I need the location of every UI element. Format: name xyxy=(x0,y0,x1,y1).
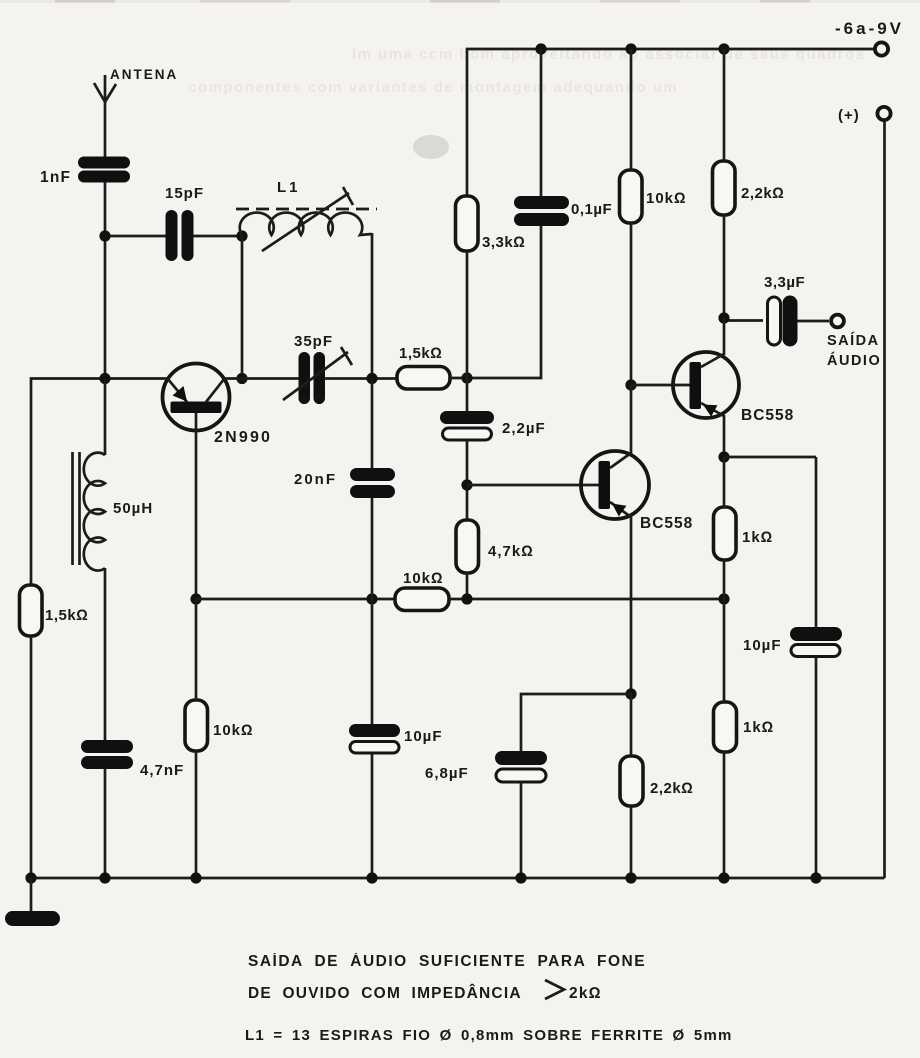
svg-text:35pF: 35pF xyxy=(294,333,333,350)
wire Q2 emitter down to 6,8uF junction xyxy=(630,516,633,694)
svg-text:15pF: 15pF xyxy=(165,185,204,202)
capacitor 0,1uF xyxy=(514,196,612,226)
wire 2,2k bottom leads xyxy=(630,694,633,756)
transistor Q1 2N990 xyxy=(163,364,273,447)
svg-text:ANTENA: ANTENA xyxy=(110,67,178,82)
svg-text:3,3kΩ: 3,3kΩ xyxy=(482,234,525,251)
wire Q3 emitter to right branch xyxy=(724,456,816,459)
wire 2,2k top to rail xyxy=(723,49,726,161)
capacitor 4,7nF xyxy=(81,740,184,779)
wire 2,2k down to 3,3uF junction xyxy=(723,215,726,318)
wire Q3 emitter down xyxy=(723,415,726,457)
svg-text:1,5kΩ: 1,5kΩ xyxy=(45,607,88,624)
wire 1k lower leads xyxy=(723,599,726,702)
resistor 2,2kOhm bottom xyxy=(620,756,693,806)
wire 4,7k to 10k row xyxy=(466,573,469,599)
wire 10k row right xyxy=(449,598,724,601)
wire 10uF to ground rail xyxy=(371,753,374,878)
svg-text:6,8µF: 6,8µF xyxy=(425,765,469,782)
inductor L1 xyxy=(236,179,377,235)
wire 0,1uF top to rail xyxy=(540,49,543,196)
wire Q3 collector up xyxy=(723,318,726,355)
node 20nF column on row xyxy=(366,593,377,604)
wire Q2 base xyxy=(467,484,599,487)
node Q3 emitter junction xyxy=(718,451,729,462)
capacitor 15pF xyxy=(165,185,204,261)
wire L1 left leg xyxy=(241,235,244,379)
svg-text:10µF: 10µF xyxy=(743,637,782,654)
wire right supply column xyxy=(883,122,886,878)
node 15pF-L1 junction xyxy=(236,230,247,241)
node Q1 base row junction xyxy=(190,593,201,604)
svg-text:DE OUVIDO COM IMPEDÂNCIA: DE OUVIDO COM IMPEDÂNCIA xyxy=(248,984,522,1002)
capacitor 20nF xyxy=(294,379,395,498)
node 10k on top rail xyxy=(625,43,636,54)
svg-text:componentes com variantes de m: componentes com variantes de montagem ad… xyxy=(188,79,678,96)
wire 2,2uF to Q2 base junction xyxy=(466,440,469,520)
svg-text:4,7kΩ: 4,7kΩ xyxy=(488,543,534,560)
svg-text:SAÍDA DE ÁUDIO SUFICIENTE PARA: SAÍDA DE ÁUDIO SUFICIENTE PARA FONE xyxy=(248,953,646,970)
transistor Q3 BC558 upper xyxy=(673,352,794,424)
wire 15pF row left xyxy=(105,235,166,238)
wire main 1,5k to 0,1uF bend xyxy=(450,226,541,378)
svg-text:L1: L1 xyxy=(277,179,301,196)
node rail 1k column xyxy=(718,872,729,883)
svg-text:1kΩ: 1kΩ xyxy=(743,719,774,736)
svg-text:ÁUDIO: ÁUDIO xyxy=(827,352,881,369)
resistor 1kOhm upper xyxy=(714,507,774,560)
capacitor 10uF left xyxy=(349,724,443,753)
resistor 4,7kOhm xyxy=(456,520,534,573)
capacitor 1nF xyxy=(40,157,130,187)
node 6,8uF junction xyxy=(625,688,636,699)
capacitor 10uF right xyxy=(743,627,842,657)
node 3,3k junction on main wire xyxy=(461,372,472,383)
wire 1,5k left to ground rail xyxy=(30,636,33,878)
svg-text:3,3µF: 3,3µF xyxy=(764,274,805,291)
svg-text:10kΩ: 10kΩ xyxy=(403,570,444,587)
wire 6,8uF loop xyxy=(521,694,631,752)
resistor 10kOhm horizontal xyxy=(395,570,449,611)
node rail 6,8uF column xyxy=(515,872,526,883)
wire 3,3k to main junction xyxy=(466,251,469,378)
node 0,1uF on top rail xyxy=(535,43,546,54)
svg-text:BC558: BC558 xyxy=(640,515,693,532)
svg-text:2,2kΩ: 2,2kΩ xyxy=(741,185,784,202)
svg-text:1,5kΩ: 1,5kΩ xyxy=(399,345,442,362)
wire right branch down to 10uF right xyxy=(815,457,818,628)
svg-text:4,7nF: 4,7nF xyxy=(140,762,184,779)
wire 4,7nF to ground rail xyxy=(104,769,107,878)
bottom ground rail xyxy=(31,877,885,880)
wire Q2 collector up to base junction of Q3 xyxy=(630,385,633,454)
top supply rail xyxy=(467,49,873,196)
svg-text:50µH: 50µH xyxy=(113,500,153,517)
wire 10k top to rail xyxy=(630,49,633,170)
resistor 10kOhm top xyxy=(620,170,687,223)
wire antenna column 1nF to 15pF tap xyxy=(104,182,107,236)
wire 20nF down through row to 10uF xyxy=(371,498,374,724)
node Q2 base junction xyxy=(461,479,472,490)
capacitor 6,8uF xyxy=(425,751,547,782)
ground xyxy=(5,878,60,926)
node L1 right on main wire xyxy=(366,373,377,384)
wire Q3 base xyxy=(631,384,690,387)
resistor 10kOhm Q1 base xyxy=(185,700,254,751)
svg-text:L1 = 13 ESPIRAS FIO Ø 0,8mm SO: L1 = 13 ESPIRAS FIO Ø 0,8mm SOBRE FERRIT… xyxy=(245,1027,733,1044)
antenna xyxy=(94,67,178,157)
caption bracket xyxy=(545,980,564,999)
capacitor 3,3uF xyxy=(724,274,829,347)
capacitor 35pF xyxy=(283,333,352,404)
node Q1 collector / L1 left junction xyxy=(236,373,247,384)
svg-text:10kΩ: 10kΩ xyxy=(213,722,254,739)
node 1k column on row xyxy=(718,593,729,604)
wire 15pF row right xyxy=(193,235,242,238)
svg-text:2,2µF: 2,2µF xyxy=(502,420,546,437)
supply terminal -6a-9V xyxy=(835,19,904,56)
node rail 2,2k column xyxy=(625,872,636,883)
node rail left xyxy=(25,872,36,883)
wire 50uH to 4,7nF xyxy=(104,568,107,740)
node rail 10uF right column xyxy=(810,872,821,883)
wire 10k down to Q3 base junction xyxy=(630,223,633,385)
wire 6,8uF to ground rail xyxy=(520,782,523,878)
wire L1 right leg xyxy=(371,233,374,379)
supply terminal (+) xyxy=(838,107,891,124)
node 15pF-antenna junction xyxy=(99,230,110,241)
resistor 1,5kOhm left xyxy=(20,585,89,636)
node rail antenna column xyxy=(99,872,110,883)
wire main between Q1 and 35pF xyxy=(225,377,300,380)
wire Q1 base down to 10k row xyxy=(195,413,198,599)
resistor 1,5kOhm horizontal xyxy=(397,345,450,389)
svg-text:2,2kΩ: 2,2kΩ xyxy=(650,780,693,797)
wire 10uF right to ground rail xyxy=(815,657,818,878)
svg-text:1nF: 1nF xyxy=(40,169,71,186)
svg-text:BC558: BC558 xyxy=(741,407,794,424)
node 3,3uF junction xyxy=(718,312,729,323)
wire 1k upper leads xyxy=(723,457,726,507)
L1 adjustment arrow xyxy=(262,187,353,251)
svg-text:2kΩ: 2kΩ xyxy=(569,985,602,1002)
svg-text:SAÍDA: SAÍDA xyxy=(827,332,880,349)
resistor 3,3kOhm xyxy=(456,196,526,251)
transistor Q2 BC558 lower xyxy=(581,451,693,532)
svg-text:10kΩ: 10kΩ xyxy=(646,190,687,207)
node rail 10uF left column xyxy=(366,872,377,883)
node Q3 base junction xyxy=(625,379,636,390)
wire 10k row left xyxy=(196,598,395,601)
node 4,7k on row xyxy=(461,593,472,604)
svg-text:10µF: 10µF xyxy=(404,728,443,745)
resistor 2,2kOhm top xyxy=(713,161,785,215)
inductor 50uH xyxy=(73,379,154,571)
node rail Q1 base column xyxy=(190,872,201,883)
wire antenna column to main wire xyxy=(104,236,107,379)
capacitor 2,2uF xyxy=(440,378,546,440)
wire main left corner xyxy=(31,379,168,586)
svg-text:20nF: 20nF xyxy=(294,471,337,488)
svg-text:1kΩ: 1kΩ xyxy=(742,529,773,546)
wire main between 35pF and 1,5k xyxy=(325,377,397,380)
svg-text:0,1µF: 0,1µF xyxy=(571,201,612,218)
svg-text:-6a-9V: -6a-9V xyxy=(835,19,904,38)
node 2,2k on top rail xyxy=(718,43,729,54)
wire 10k base resistor leads xyxy=(195,599,198,700)
svg-text:2N990: 2N990 xyxy=(214,429,272,446)
resistor 1kOhm lower xyxy=(714,702,775,752)
output terminal SAIDA AUDIO xyxy=(827,315,881,369)
svg-text:(+): (+) xyxy=(838,107,860,124)
node antenna column on main wire xyxy=(99,373,110,384)
